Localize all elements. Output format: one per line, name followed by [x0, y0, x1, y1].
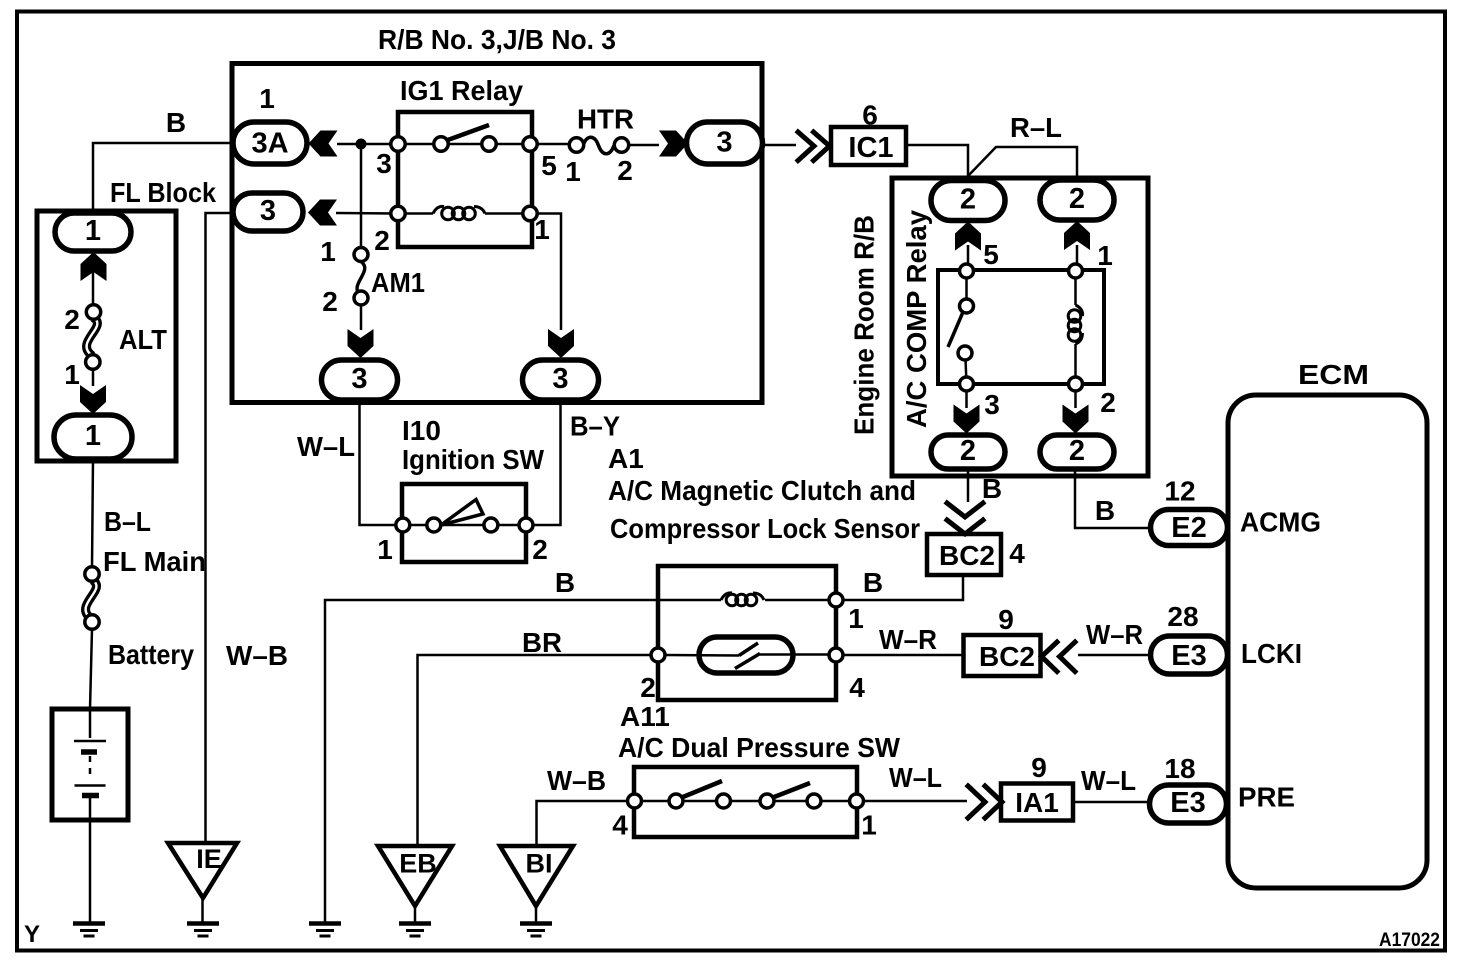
svg-text:6: 6 — [862, 100, 878, 131]
svg-text:LCKI: LCKI — [1241, 638, 1302, 669]
svg-text:4: 4 — [849, 672, 865, 703]
svg-text:BI: BI — [526, 849, 553, 879]
svg-text:2: 2 — [322, 286, 338, 317]
svg-text:A11: A11 — [620, 701, 670, 732]
svg-text:1: 1 — [565, 156, 581, 187]
svg-text:1: 1 — [861, 810, 877, 841]
svg-text:IE: IE — [196, 844, 222, 874]
svg-text:ACMG: ACMG — [1240, 507, 1321, 538]
svg-text:5: 5 — [983, 239, 999, 270]
svg-text:B–L: B–L — [104, 506, 151, 537]
svg-text:3: 3 — [351, 363, 367, 395]
svg-text:Battery: Battery — [108, 639, 194, 670]
svg-text:4: 4 — [612, 810, 628, 841]
svg-text:BC2: BC2 — [979, 641, 1035, 672]
svg-text:BC2: BC2 — [939, 540, 995, 571]
svg-text:1: 1 — [848, 603, 864, 634]
svg-text:ECM: ECM — [1298, 359, 1369, 390]
svg-text:1: 1 — [1097, 240, 1113, 271]
svg-text:W–L: W–L — [1081, 765, 1136, 796]
svg-text:E3: E3 — [1171, 640, 1206, 672]
svg-text:IG1 Relay: IG1 Relay — [400, 75, 523, 106]
svg-text:Compressor Lock Sensor: Compressor Lock Sensor — [610, 513, 920, 544]
svg-text:3: 3 — [552, 363, 568, 395]
svg-text:FL Main: FL Main — [103, 546, 206, 577]
svg-text:W–B: W–B — [547, 765, 606, 796]
svg-text:3A: 3A — [251, 128, 288, 160]
svg-text:E2: E2 — [1171, 512, 1206, 544]
svg-text:E3: E3 — [1170, 787, 1205, 819]
svg-text:3: 3 — [260, 195, 276, 227]
svg-text:W–R: W–R — [1086, 619, 1143, 650]
svg-text:IA1: IA1 — [1015, 787, 1059, 818]
svg-text:Ignition SW: Ignition SW — [402, 444, 545, 475]
svg-text:B: B — [555, 567, 575, 598]
svg-text:3: 3 — [984, 389, 1000, 420]
svg-text:1: 1 — [85, 215, 101, 247]
svg-text:4: 4 — [1009, 538, 1025, 569]
svg-text:B: B — [863, 567, 883, 598]
svg-text:B: B — [166, 107, 186, 138]
svg-text:W–L: W–L — [297, 431, 355, 462]
svg-text:2: 2 — [1069, 183, 1085, 215]
svg-text:12: 12 — [1164, 476, 1195, 507]
svg-text:1: 1 — [320, 236, 336, 267]
svg-text:2: 2 — [1100, 387, 1116, 418]
svg-text:EB: EB — [399, 849, 437, 879]
svg-text:28: 28 — [1167, 601, 1198, 632]
svg-text:2: 2 — [64, 304, 80, 335]
svg-text:PRE: PRE — [1238, 782, 1295, 813]
svg-text:1: 1 — [534, 214, 550, 245]
svg-text:W–L: W–L — [889, 762, 942, 793]
svg-text:B: B — [982, 473, 1002, 504]
svg-text:A/C Magnetic Clutch and: A/C Magnetic Clutch and — [608, 475, 916, 506]
svg-text:A1: A1 — [608, 443, 644, 474]
svg-text:1: 1 — [85, 420, 101, 452]
svg-text:Engine Room R/B: Engine Room R/B — [849, 215, 880, 435]
svg-text:9: 9 — [1031, 752, 1047, 783]
svg-text:B: B — [1095, 495, 1115, 526]
svg-text:2: 2 — [640, 672, 656, 703]
svg-text:1: 1 — [377, 534, 393, 565]
svg-text:AM1: AM1 — [371, 267, 425, 298]
svg-text:2: 2 — [374, 225, 390, 256]
svg-text:3: 3 — [716, 127, 732, 159]
svg-text:A17022: A17022 — [1379, 930, 1440, 951]
svg-text:1: 1 — [64, 359, 80, 390]
svg-text:FL Block: FL Block — [110, 177, 216, 208]
svg-text:HTR: HTR — [577, 104, 634, 135]
svg-text:B–Y: B–Y — [570, 411, 620, 442]
svg-text:A/C Dual Pressure SW: A/C Dual Pressure SW — [618, 732, 901, 763]
svg-text:9: 9 — [998, 604, 1014, 635]
svg-text:R/B No. 3,J/B No. 3: R/B No. 3,J/B No. 3 — [378, 24, 616, 55]
svg-text:2: 2 — [532, 534, 548, 565]
svg-text:1: 1 — [259, 83, 275, 114]
svg-text:ALT: ALT — [119, 324, 167, 355]
svg-text:2: 2 — [960, 435, 976, 467]
svg-text:I10: I10 — [402, 415, 441, 446]
svg-text:W–B: W–B — [226, 640, 288, 671]
svg-text:3: 3 — [376, 148, 392, 179]
svg-text:BR: BR — [522, 627, 562, 658]
svg-text:5: 5 — [541, 150, 557, 181]
svg-text:A/C COMP Relay: A/C COMP Relay — [901, 210, 932, 428]
svg-text:2: 2 — [1069, 435, 1085, 467]
svg-text:2: 2 — [960, 184, 976, 216]
svg-text:IC1: IC1 — [848, 132, 893, 164]
svg-text:R–L: R–L — [1010, 112, 1062, 143]
svg-text:18: 18 — [1164, 753, 1195, 784]
svg-text:Y: Y — [24, 921, 40, 948]
svg-text:2: 2 — [617, 155, 633, 186]
svg-text:W–R: W–R — [879, 624, 937, 655]
